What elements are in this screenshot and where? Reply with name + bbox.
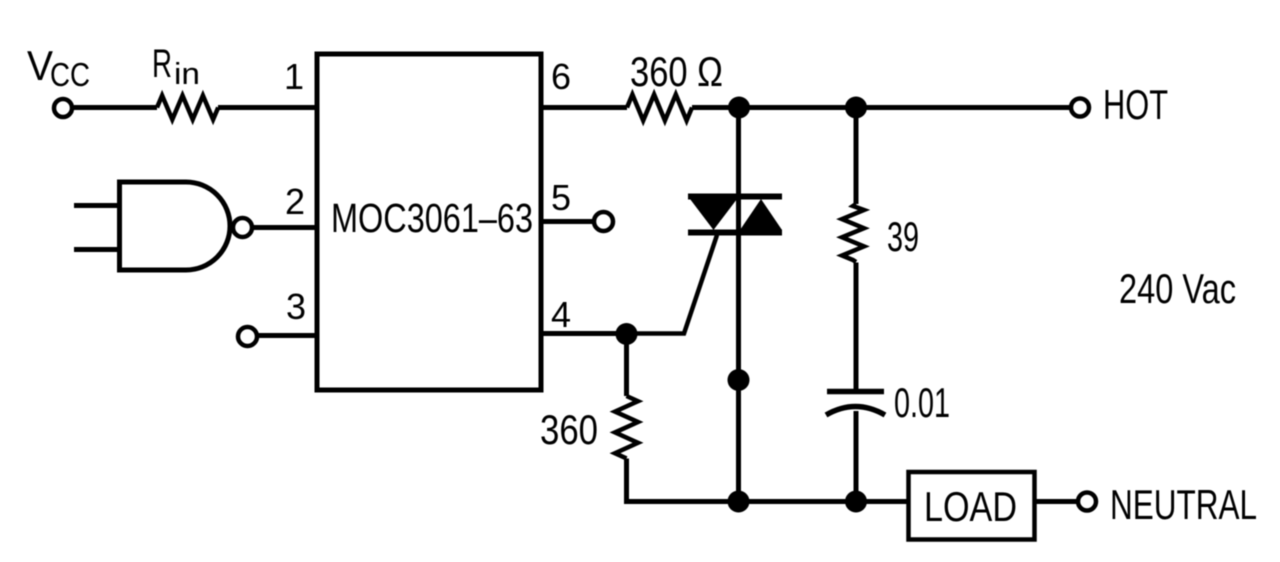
wire Rin to pin1 [218, 105, 317, 110]
wire capacitor to bottom rail [854, 411, 859, 502]
triac Q1 [688, 197, 782, 233]
load box [909, 472, 1035, 540]
node junction top rail snubber [845, 97, 867, 119]
svg-text:HOT: HOT [1103, 81, 1168, 128]
svg-text:360 Ω: 360 Ω [630, 48, 723, 95]
svg-text:3: 3 [286, 286, 306, 327]
svg-text:39: 39 [887, 213, 919, 260]
wire pin4 to node [541, 331, 616, 336]
svg-text:in: in [174, 56, 200, 91]
wire pin6 to R360 [541, 105, 627, 110]
wire nand input top [74, 203, 119, 208]
node junction top rail triac [728, 97, 750, 119]
svg-text:R: R [152, 42, 172, 86]
svg-text:2: 2 [285, 181, 305, 222]
wire R4 to capacitor [854, 263, 859, 392]
svg-text:4: 4 [551, 294, 571, 335]
capacitor C1 0.01 [826, 392, 885, 416]
svg-text:CC: CC [50, 56, 90, 93]
svg-text:LOAD: LOAD [924, 483, 1017, 530]
svg-text:360: 360 [540, 406, 598, 453]
terminal HOT [1071, 99, 1089, 117]
IC U1 MOC3061-63 body [317, 54, 541, 390]
terminal pin3 open [238, 327, 257, 346]
wire VCC to Rin [74, 105, 157, 110]
nand gate U2 [120, 182, 253, 270]
terminal pin5 open [594, 212, 613, 231]
svg-text:MOC3061–63: MOC3061–63 [331, 195, 533, 241]
wire nand input bottom [74, 247, 119, 252]
wire pin3 [258, 333, 317, 338]
wire triac vertical [736, 108, 741, 502]
svg-text:NEUTRAL: NEUTRAL [1110, 481, 1257, 528]
terminal NEUTRAL [1078, 493, 1096, 511]
resistor R2 360 ohm [627, 95, 692, 121]
svg-text:240 Vac: 240 Vac [1119, 265, 1236, 312]
node junction triac line dot [728, 369, 750, 391]
node junction bottom rail triac [728, 491, 750, 513]
svg-text:1: 1 [284, 56, 304, 97]
node junction bottom rail snubber [845, 491, 867, 513]
resistor R4 39 [842, 204, 864, 262]
resistor R1 Rin [157, 96, 218, 120]
wire R3 to bottom rail corner [627, 459, 909, 502]
svg-text:6: 6 [551, 56, 571, 97]
node A pin4 junction [616, 323, 638, 345]
wire snubber vertical upper [854, 108, 859, 205]
wire pin5 [541, 219, 593, 224]
svg-text:0.01: 0.01 [894, 379, 950, 426]
wire triac gate [627, 235, 718, 334]
wire nand output to pin2 [253, 225, 317, 230]
terminal VCC [54, 99, 72, 117]
wire top rail to HOT [692, 105, 1070, 110]
wire load to neutral [1035, 499, 1078, 504]
wire pin4 node down [624, 334, 629, 396]
svg-text:5: 5 [551, 177, 571, 218]
resistor R3 360 [615, 396, 638, 458]
